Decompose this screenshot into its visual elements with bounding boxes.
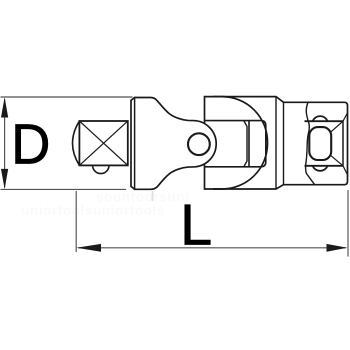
svg-text:sountoorsuni: sountoorsuni [96, 190, 189, 205]
svg-text:D: D [11, 113, 50, 176]
svg-text:L: L [180, 194, 212, 258]
svg-text:uniortoolsuniortools: uniortoolsuniortools [21, 203, 165, 218]
svg-text:l: l [151, 188, 155, 204]
